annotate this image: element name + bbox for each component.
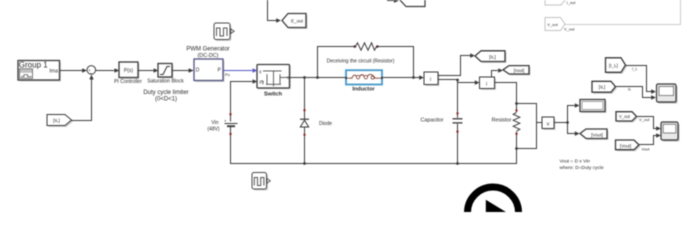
svg-text:[IL]: [IL] xyxy=(53,118,60,124)
svg-text:P(s): P(s) xyxy=(124,68,134,74)
annotation Vout formula xyxy=(560,159,604,172)
Goto tag E_out xyxy=(282,14,308,30)
capacitor branch xyxy=(456,80,458,164)
current sensor 1 xyxy=(424,72,440,86)
wire V_out to scope2 input1 xyxy=(637,117,661,131)
svg-text:[Vout]: [Vout] xyxy=(591,132,603,137)
svg-text:[Vout]: [Vout] xyxy=(620,143,631,148)
wire from top into Goto E_out xyxy=(268,0,281,23)
wire From [IL] to sum bottom input xyxy=(72,75,94,121)
voltage sensor block xyxy=(542,117,556,130)
svg-text:Duty cycle limiter: Duty cycle limiter xyxy=(143,90,188,96)
top branch wire (deceiving resistor) xyxy=(318,47,415,79)
svg-text:I_L: I_L xyxy=(632,66,638,71)
svg-text:[IL]: [IL] xyxy=(599,85,605,90)
wire sum to PI controller xyxy=(96,68,120,73)
voltage sensor parallel loop xyxy=(517,104,543,149)
svg-text:V_out: V_out xyxy=(639,117,650,122)
From tag [I_L] xyxy=(606,58,639,74)
svg-text:Diode: Diode xyxy=(319,121,332,127)
From tag [IL] (lower) xyxy=(592,81,632,93)
wire sensor1 out to capacitor node and sensor2 xyxy=(438,79,479,85)
svg-text:Pu: Pu xyxy=(225,72,230,77)
svg-text:Saturation Block: Saturation Block xyxy=(147,79,184,85)
wire [Vout] to scope2 input2 xyxy=(639,133,661,144)
diode branch xyxy=(303,78,305,164)
svg-text:i: i xyxy=(486,82,487,88)
source block Group 1 (signal builder) xyxy=(18,61,61,82)
wire inductor to current sensor 1 xyxy=(382,75,424,80)
wire Group1 to sum xyxy=(60,68,87,73)
svg-text:Group 1: Group 1 xyxy=(19,61,48,70)
svg-text:Inductor: Inductor xyxy=(352,87,375,93)
PI Controller block xyxy=(114,62,142,85)
wire [IL] to scope1 input2 xyxy=(616,87,656,100)
wire PWM output to switch gate (blue) + label Pu xyxy=(223,71,253,77)
svg-text:(DC-DC): (DC-DC) xyxy=(198,53,219,59)
wire saturation to PWM xyxy=(172,68,194,73)
svg-text:PWM Generator: PWM Generator xyxy=(186,47,229,53)
From tag [Vout] (lower right) xyxy=(616,140,651,152)
svg-text:(0<D<1): (0<D<1) xyxy=(155,96,177,102)
From tag V_out xyxy=(616,112,650,123)
svg-text:where: D=Duty cycle: where: D=Duty cycle xyxy=(560,165,604,171)
svg-text:I_out: I_out xyxy=(567,0,577,5)
bottom ground rail xyxy=(230,162,517,165)
sum junction xyxy=(87,66,96,76)
wire PI to saturation xyxy=(138,68,158,73)
svg-text:Deceiving the circuit (Resisto: Deceiving the circuit (Resistor) xyxy=(327,59,395,65)
annotation Duty cycle limiter (red) xyxy=(143,90,188,103)
wire battery to switch D input xyxy=(231,82,253,122)
svg-text:Vout = D x Vin: Vout = D x Vin xyxy=(560,159,591,165)
svg-text:[I_L]: [I_L] xyxy=(609,63,618,68)
svg-text:Switch: Switch xyxy=(264,91,283,97)
measurement wire sensor2 to Goto [Iout] xyxy=(492,68,503,77)
svg-text:g: g xyxy=(259,69,261,73)
svg-text:(48V): (48V) xyxy=(207,127,220,133)
svg-text:[IL]: [IL] xyxy=(489,54,496,60)
capacitor symbol xyxy=(420,117,462,123)
faded From tag I_out (top, cut off) xyxy=(545,0,576,5)
svg-text:V_out: V_out xyxy=(564,27,575,32)
svg-text:E_out: E_out xyxy=(291,19,304,24)
svg-text:Vin: Vin xyxy=(211,120,218,126)
resistor (load) zigzag xyxy=(492,109,520,135)
svg-text:Vout: Vout xyxy=(642,147,651,152)
Goto tag [IL] xyxy=(475,51,507,63)
resistor (deceiving) zigzag xyxy=(327,43,395,65)
load resistor branch xyxy=(515,83,518,164)
battery Vin (48V) xyxy=(207,113,237,163)
wire sensor2 to load resistor branch xyxy=(495,82,518,84)
partial Goto tag (top right, cut off) xyxy=(387,0,425,7)
faded From tag V_out with faded wire xyxy=(545,0,681,32)
saturation block xyxy=(147,64,184,85)
Goto tag [Iout] xyxy=(503,66,531,76)
scope 2 xyxy=(661,122,680,142)
diode symbol xyxy=(300,119,332,127)
pulse generator icon block (bottom) xyxy=(252,173,270,191)
PWM Generator (DC-DC) block xyxy=(186,47,229,83)
pulse generator icon block (top) xyxy=(214,23,234,41)
measurement wire sensor1 to Goto [IL] xyxy=(438,53,475,75)
svg-text:i: i xyxy=(430,77,431,83)
svg-text:[Iout]: [Iout] xyxy=(514,68,525,74)
wire [I_L] to scope1 input1 xyxy=(626,66,656,94)
From tag [IL] feedback xyxy=(47,115,73,128)
Goto tag [Vout] xyxy=(580,129,609,140)
svg-text:V_out: V_out xyxy=(619,114,631,119)
svg-text:Ima: Ima xyxy=(49,69,58,75)
svg-text:V_out: V_out xyxy=(547,22,558,27)
wire switch S output to inductor (main node) xyxy=(290,76,347,79)
scope 1 xyxy=(657,84,678,104)
svg-text:+: + xyxy=(224,119,227,124)
inductor block with blue selection highlight xyxy=(345,70,383,92)
play button watermark xyxy=(468,187,519,238)
svg-text:PI Controller: PI Controller xyxy=(114,79,142,85)
display block (numeric) xyxy=(580,100,607,114)
svg-text:D: D xyxy=(196,67,200,73)
current sensor 2 xyxy=(480,77,497,90)
svg-text:Resistor: Resistor xyxy=(492,117,512,123)
svg-text:Capacitor: Capacitor xyxy=(420,117,443,123)
wire voltage sensor to display and Goto [Vout] xyxy=(554,103,580,136)
switch block (MOSFET) xyxy=(253,65,291,98)
